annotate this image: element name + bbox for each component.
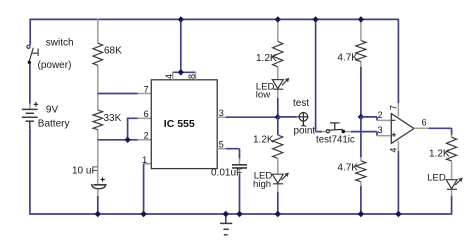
wire divider to R6 [360, 117, 362, 157]
node pin2/pin6 junction dot [124, 137, 130, 143]
svg-text:8: 8 [187, 74, 197, 79]
resistor R7 1.2K top lead [451, 135, 453, 138]
op-amp pin 2 stub [377, 119, 391, 121]
node dot bottom rail at pin4 [395, 211, 401, 217]
op-amp pin 7 stub [397, 103, 399, 116]
wire pin2 net [98, 139, 138, 141]
LED D3 arrow head [458, 178, 463, 183]
wire LED high to bottom rail [277, 192, 279, 214]
svg-text:5: 5 [219, 139, 224, 149]
resistor R1 68K zigzag [93, 43, 103, 65]
wire R6 to bottom rail [360, 186, 362, 214]
op-amp pin 4 stub [397, 141, 399, 152]
battery B1 9V [22, 109, 38, 128]
svg-text:point: point [294, 126, 316, 137]
LED D2 high leads [277, 158, 279, 192]
resistor R1 68K leads [97, 19, 99, 111]
resistor R5 4.7K zigzag [356, 41, 366, 62]
wire op-amp pin4 to bottom rail [397, 151, 399, 214]
wire output to R7 [428, 128, 451, 134]
svg-text:2: 2 [378, 110, 383, 120]
svg-text:(power): (power) [38, 60, 72, 71]
LED D1 arrow head [285, 78, 290, 83]
wire +9V to test switch [316, 19, 322, 131]
capacitor C2 bottom lead [239, 168, 241, 174]
svg-text:1: 1 [142, 155, 147, 165]
LED D3 symbol [446, 179, 461, 189]
LED D1 low symbol [272, 79, 288, 89]
wire LED low to node [277, 98, 279, 117]
wire top rail to pins 4,8 [173, 19, 196, 72]
node dot top rail at SW2 [312, 16, 318, 22]
switch SW1 (power) [27, 45, 38, 61]
op-amp/IC U1 555 box [151, 80, 217, 169]
resistor R6 4.7K zigzag [356, 161, 366, 182]
wire node to R4 [277, 117, 279, 135]
pin 5 stub [217, 148, 226, 150]
pin 6 stub [138, 117, 152, 119]
svg-text:0.01uF: 0.01uF [211, 168, 242, 179]
svg-text:Battery: Battery [38, 119, 70, 130]
node dot bottom rail at pin1 [140, 211, 146, 217]
svg-text:3: 3 [378, 125, 383, 135]
svg-text:7: 7 [389, 105, 399, 110]
node dot pins 4-8 bar [178, 69, 184, 75]
resistor R7 1.2K zigzag [446, 137, 456, 161]
pin 1 stub [144, 163, 152, 165]
pin 2 stub [138, 139, 152, 141]
svg-text:6: 6 [144, 109, 149, 119]
op-amp plus mark [392, 133, 396, 137]
wire +9V to op-amp pin7 [397, 19, 399, 104]
svg-text:4.7K: 4.7K [337, 162, 358, 173]
resistor R4 1.2K second zigzag [273, 135, 283, 158]
test point symbol [299, 112, 309, 126]
resistor R5 4.7K top lead [360, 19, 362, 40]
battery plus sign [34, 102, 39, 107]
pin 3 stub [217, 116, 226, 118]
pin 4 stub (top) [172, 72, 174, 80]
resistor R2 lower lead / cap C1 top lead [97, 130, 99, 185]
node dot bottom rail at R6 [358, 211, 364, 217]
wire battery to bottom rail [29, 129, 31, 215]
wire C2 to bottom rail [239, 174, 241, 214]
node dot bottom rail at ground [223, 211, 229, 217]
battery pin top [29, 104, 31, 110]
wire pin7 net [98, 93, 138, 95]
svg-text:test: test [293, 98, 309, 109]
resistor R5 bottom lead [360, 62, 362, 68]
svg-text:1.2K: 1.2K [253, 135, 274, 146]
svg-text:4: 4 [164, 74, 174, 79]
wire pin5 to C2 [226, 149, 240, 159]
capacitor C1 bottom lead [97, 189, 99, 196]
wire pin3 to LED node [226, 116, 278, 118]
node dot top rail at R5 [358, 16, 364, 22]
op-amp pin 3 stub [377, 135, 391, 137]
svg-text:LED: LED [427, 173, 446, 184]
pin 8 stub (top) [195, 72, 197, 80]
switch SW2 test741ic [326, 123, 342, 133]
svg-text:33K: 33K [104, 113, 122, 124]
op-amp U2 741 triangle [391, 114, 414, 144]
LED D1 low leads [277, 67, 279, 98]
wire C1 to bottom rail [97, 196, 99, 214]
node dot bottom rail at C2 [236, 211, 242, 217]
resistor R6 4.7K lower lead top [360, 157, 362, 161]
wire LED D3 to bottom rail [451, 196, 453, 215]
resistor R6 bottom lead [360, 182, 362, 186]
wire left rail lower (switch to battery) [29, 64, 31, 104]
op-amp minus mark [392, 119, 396, 121]
svg-text:9V: 9V [46, 104, 59, 115]
switch SW1 bottom contact dot [28, 61, 31, 64]
wire bottom rail ground [30, 213, 451, 215]
svg-text:68K: 68K [104, 46, 122, 57]
svg-text:1.2K: 1.2K [429, 148, 450, 159]
capacitor C1 10uF plates [93, 184, 105, 186]
svg-text:test741ic: test741ic [316, 135, 355, 146]
LED D2 arrow head [284, 173, 289, 178]
wire node to test point [278, 116, 296, 118]
op-amp pin 6 output stub [414, 127, 428, 129]
resistor R3 1.2K zigzag [273, 42, 283, 67]
capacitor C2 0.01uF plates [232, 165, 247, 168]
node dot bottom rail at C1 [95, 211, 101, 217]
pin 7 stub [138, 93, 152, 95]
node dot top rail at IC [178, 16, 184, 22]
node dot top rail at R3 [275, 16, 281, 22]
wire divider to op-amp pin2 [361, 117, 377, 121]
resistor R3 1.2K top lead [277, 19, 279, 41]
svg-text:high: high [253, 179, 271, 190]
wire pin1 to bottom rail [143, 164, 145, 214]
svg-text:1.2K: 1.2K [256, 53, 277, 64]
switch SW2 left pin [322, 131, 326, 133]
capacitor C2 top lead [239, 159, 241, 165]
ground symbol [220, 214, 232, 235]
node divider junction dot [358, 114, 364, 120]
svg-text:switch: switch [46, 37, 74, 48]
svg-text:2: 2 [144, 131, 149, 141]
svg-text:4: 4 [389, 148, 399, 153]
wire pin6 link [127, 118, 138, 140]
wire top rail +9V [30, 18, 398, 20]
switch SW2 right contact dot [342, 130, 346, 134]
switch SW2 right pin [345, 131, 351, 133]
svg-text:7: 7 [144, 84, 149, 94]
svg-text:6: 6 [422, 117, 427, 127]
svg-text:10 uF: 10 uF [72, 166, 98, 177]
wire R5 to divider node [360, 67, 362, 117]
node output junction dot [275, 114, 281, 120]
svg-text:IC 555: IC 555 [164, 118, 195, 130]
svg-text:4.7K: 4.7K [337, 53, 358, 64]
LED D2 high symbol [272, 174, 287, 184]
wire SW2 to op-amp pin3 [351, 132, 377, 136]
capacitor C1 10uF plus sign [100, 177, 104, 181]
LED D3 leads [451, 161, 453, 196]
wire left rail upper [29, 19, 31, 45]
svg-text:low: low [256, 89, 270, 100]
node dot bottom rail at LED high [275, 211, 281, 217]
resistor R2 33K zigzag [93, 110, 103, 130]
svg-text:3: 3 [219, 108, 224, 118]
